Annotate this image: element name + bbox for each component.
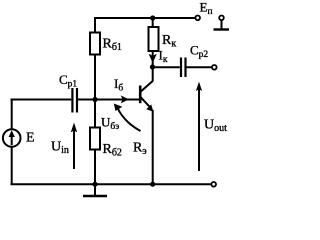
wire bias rail lower (94, 150, 96, 186)
arrow Ib (121, 95, 129, 103)
svg-text:Cp1: Cp1 (59, 72, 77, 90)
wire output to terminal (187, 66, 213, 68)
wire collector rail upper (152, 17, 154, 27)
svg-text:Uout: Uout (204, 118, 227, 135)
transistor VT emitter arrowhead (146, 104, 153, 111)
node top bus junction (150, 15, 155, 20)
node bias bottom junction (92, 182, 97, 187)
source E (3, 129, 21, 147)
svg-text:Rк: Rк (162, 33, 176, 50)
transistor VT emitter lead (141, 97, 152, 109)
svg-text:Uбэ: Uбэ (101, 115, 119, 133)
arrow Ube curved (117, 108, 140, 132)
capacitor Cp1 (71, 88, 73, 113)
ground bottom (94, 184, 96, 195)
svg-text:Rб1: Rб1 (103, 37, 122, 54)
terminal output bottom (211, 182, 216, 187)
wire output horizontal (153, 66, 180, 68)
svg-text:Rб2: Rб2 (103, 142, 122, 159)
terminal output top (212, 65, 217, 70)
svg-text:Iб: Iб (114, 76, 123, 94)
svg-text:Rэ: Rэ (133, 141, 147, 158)
wire bias rail middle (94, 55, 96, 128)
capacitor Cp2 (180, 58, 182, 78)
transistor VT collector lead (141, 81, 153, 92)
wire input left vertical lower (11, 147, 13, 186)
wire input left vertical upper (11, 100, 13, 130)
ground top right (221, 20, 223, 29)
svg-text:Iк: Iк (159, 48, 168, 66)
wire collector rail lower (152, 51, 154, 82)
arrow Ik (149, 54, 157, 63)
node collector output junction (150, 64, 155, 69)
terminal Ep (195, 15, 200, 20)
transistor VT base bar (139, 86, 142, 104)
svg-text:Cp2: Cp2 (190, 43, 208, 61)
resistor Rk (149, 27, 159, 51)
arrow Uout (198, 89, 200, 171)
wire top bus (95, 17, 196, 19)
arrow Uin (73, 130, 75, 169)
svg-text:Eп: Eп (200, 0, 213, 17)
resistor R62 (90, 128, 100, 150)
resistor R61 (90, 33, 100, 55)
svg-text:E: E (26, 131, 35, 146)
node emitter bottom junction (150, 182, 155, 187)
terminal ground top right (219, 15, 224, 20)
wire emitter rail (152, 110, 154, 185)
wire bottom bus (11, 183, 212, 185)
wire input top horizontal (11, 99, 72, 101)
node base-divider junction (92, 97, 97, 102)
wire bias rail upper (94, 17, 96, 33)
wire base (78, 99, 139, 101)
svg-text:Uin: Uin (51, 140, 69, 157)
